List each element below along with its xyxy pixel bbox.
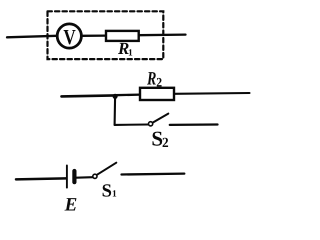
resistor R2	[140, 88, 174, 100]
wire right lead of top branch	[139, 33, 186, 36]
node junction dot	[113, 94, 118, 99]
wire right lead of middle branch	[174, 92, 250, 95]
svg-text:R: R	[146, 69, 156, 90]
svg-text:V: V	[63, 25, 76, 49]
svg-text:2: 2	[156, 74, 162, 89]
wire right lead of bottom branch	[122, 172, 185, 175]
svg-text:S: S	[102, 182, 112, 202]
switch S2 blade	[153, 114, 169, 123]
dashed box around voltmeter and R1	[48, 11, 164, 59]
resistor R1	[106, 31, 139, 41]
svg-text:1: 1	[128, 48, 133, 58]
wire junction down	[114, 96, 117, 125]
wire battery to S1	[77, 176, 93, 179]
switch S1 blade	[97, 163, 116, 175]
wire left lead of middle branch	[62, 95, 116, 96]
svg-text:1: 1	[112, 190, 117, 200]
battery E short thick plate	[72, 171, 76, 182]
svg-text:E: E	[64, 195, 78, 211]
voltmeter U1 circle	[57, 24, 81, 48]
switch S2 pivot circle	[149, 122, 153, 126]
wire junction to R2	[115, 93, 141, 96]
switch S1 pivot circle	[93, 174, 97, 178]
svg-text:2: 2	[162, 136, 169, 151]
wire left lead of bottom branch	[16, 178, 66, 179]
wire voltmeter to R1	[83, 34, 107, 37]
wire left lead of top branch	[7, 36, 57, 38]
wire right of S2	[170, 123, 218, 126]
wire to switch S2	[115, 123, 149, 126]
battery E long plate	[66, 166, 68, 188]
